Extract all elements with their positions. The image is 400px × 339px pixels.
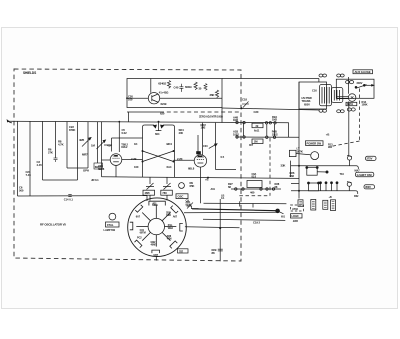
shield enclosure dashed box [14,69,241,261]
pilot label box [106,222,120,227]
dual diode arrows [145,121,173,136]
load label box [291,214,303,218]
wire ladder v6 [77,122,79,181]
transformer secondary winding [332,88,343,103]
wire band line d [203,219,285,220]
wire v 290 [289,161,291,177]
aux gauge label box [353,70,373,74]
svg-text:100: 100 [128,98,133,102]
wire tube left [102,159,111,161]
svg-text:4M5: 4M5 [79,138,85,142]
wire stub above tube [111,138,113,152]
svg-text:MR7: MR7 [82,153,88,157]
node n9 [260,188,262,190]
wire y180 [43,179,78,181]
svg-text:6249: 6249 [161,102,167,106]
choke loop 2 [309,183,319,191]
vertical tag 3 [323,200,328,209]
svg-text:6x11: 6x11 [254,129,260,133]
xtal holder box [247,181,262,188]
vertical tag 2 [311,200,316,211]
svg-text:41+: 41+ [107,144,112,148]
svg-text:2.2K: 2.2K [131,157,137,161]
svg-text:780: 780 [162,191,167,195]
svg-text:604: 604 [155,132,160,136]
capacitor C14 plates [68,195,71,197]
terminal pair e [346,81,354,84]
wire v 220 [219,199,221,261]
wire box bottom extension [222,108,320,110]
svg-text:PC2: PC2 [137,237,142,240]
svg-text:1M2: 1M2 [272,118,278,122]
svg-text:1M2: 1M2 [201,125,206,129]
tube V2A [110,149,122,177]
svg-text:0.5: 0.5 [221,155,225,159]
wire band line a [204,202,287,204]
svg-text:T10: T10 [340,172,345,176]
resistor R35 [204,84,207,91]
svg-text:400: 400 [179,131,184,135]
wire ladder v2 [29,122,31,197]
trimmer C9 step [187,206,199,209]
cathode line L1 [102,177,300,179]
ne51 label box [346,102,357,105]
wire v 266 [266,124,268,137]
wire transformer top stub [318,79,320,83]
node j1 [142,150,144,152]
wire v 274 [274,124,276,137]
node loop1a [306,167,308,169]
transformer primary winding [320,85,332,106]
trimmer C18 [242,102,249,108]
svg-text:818.2: 818.2 [121,145,128,149]
node n8 [242,188,244,190]
svg-text:4.7K: 4.7K [58,143,64,147]
svg-text:SHIELDS: SHIELDS [23,71,36,75]
node b275 [298,165,300,167]
node n11 [272,188,274,190]
node tap [219,227,221,229]
wire 275v line [291,165,357,167]
svg-text:36K: 36K [210,93,215,97]
svg-text:102S: 102S [233,132,239,136]
wire top bus to power transformer [222,78,319,80]
svg-text:JW2: JW2 [293,219,299,223]
wire stub 239 [239,201,241,206]
svg-text:230V: 230V [357,81,363,85]
svg-text:47M: 47M [167,238,172,241]
hook 450 [356,191,358,194]
450v label box [364,185,375,189]
coil L4B [94,163,103,169]
svg-text:A61: A61 [211,188,216,191]
resistor R33 [194,82,197,90]
trimmer CT2 label [161,190,173,195]
terminal pair b [337,74,344,77]
svg-text:450V: 450V [365,185,371,189]
svg-text:+B: +B [329,196,332,199]
B+ pin 1 [347,155,352,165]
g-shift label box [355,172,373,176]
pilot lamp circle [109,213,116,220]
svg-text:NE51: NE51 [347,102,354,106]
svg-text:460: 460 [250,191,255,195]
node n6 [266,136,268,138]
svg-text:C40: C40 [174,85,179,89]
node n7 [235,188,237,190]
wire ladder v4 [55,122,57,159]
svg-text:C19 2: C19 2 [253,221,261,225]
svg-text:C3B: C3B [166,214,171,217]
wire switch bottom stub [155,256,157,260]
switch S1 [355,84,374,88]
svg-text:100K: 100K [362,103,368,107]
wire plate box v [215,123,217,170]
hook 275 [357,166,359,169]
svg-text:65K: 65K [190,184,195,188]
wire coupler left [122,159,143,161]
node n6b [273,136,275,138]
svg-text:2M: 2M [254,140,257,144]
wire collector chord [127,97,148,99]
svg-text:41+45Ω: 41+45Ω [159,90,169,94]
svg-text:107K: 107K [297,150,303,154]
node j3 [173,150,175,152]
wire plate box h [216,169,236,171]
terminal pair c [319,109,327,112]
wire y168 [67,167,88,169]
svg-text:33K: 33K [281,164,286,168]
node n3b [269,122,271,124]
coil blob above V2B [196,151,201,154]
svg-text:AT18: AT18 [292,207,298,211]
wire band line c [184,211,277,214]
svg-text:6BL8: 6BL8 [98,167,105,171]
neon lamp NE51 [348,94,356,102]
svg-text:36T: 36T [249,144,254,147]
wire loop1 tap [317,171,327,173]
node n10 [266,188,268,190]
pin stub 2 [325,182,327,191]
svg-text:LOAD: LOAD [292,214,299,218]
275v label box [366,156,377,160]
node j2 [142,161,144,163]
oscillator dashed sub box [269,138,271,196]
svg-text:7-45: 7-45 [26,173,32,177]
svg-text:A67: A67 [173,216,178,219]
svg-text:100: 100 [134,165,139,169]
pin stub 3 [331,182,333,191]
meter amplifier box [127,79,222,108]
wire v 243 [243,123,245,136]
wire v 253 [252,204,254,208]
svg-text:C9: C9 [186,199,190,203]
main grid bus wire [8,121,289,137]
svg-text:R62: R62 [354,195,359,198]
svg-text:900: 900 [328,145,333,149]
jack J1 label [176,194,188,199]
rotary band switch outer [128,198,187,257]
svg-text:600Ω: 600Ω [185,85,192,89]
dashed link vertical [359,89,361,142]
jack J1 [179,183,185,189]
capacitor C4 plates [54,158,58,162]
B+ pin 2 [347,182,352,191]
label 787 box [178,249,189,253]
svg-text:JR 0.1: JR 0.1 [91,178,99,182]
node loop2b [318,182,320,184]
power transformer T1 box [299,82,327,109]
wire crossover 2 [143,151,174,162]
wire lower box line [127,111,160,113]
svg-text:G-SHIFT OSC: G-SHIFT OSC [357,173,373,177]
wire ladder v1 [17,122,19,197]
svg-text:6340Ω: 6340Ω [158,82,167,86]
wire box drop [128,112,130,122]
node loop2a [308,182,310,184]
terminal pair a [319,74,327,77]
switch spokes and contacts [130,201,183,253]
wire switch top stub a [149,195,151,200]
svg-text:81.8: 81.8 [252,175,257,178]
svg-text:W9d: W9d [168,227,174,230]
node loop1b [316,167,318,169]
node n1 [236,121,238,123]
svg-text:OPH: OPH [83,169,89,173]
svg-text:C18: C18 [242,98,247,102]
wire 450v line [291,190,356,192]
node n2 [243,121,245,123]
vertical tag 4 [331,200,336,211]
node feed [276,209,280,213]
svg-text:1K: 1K [134,142,137,146]
lamp leads [336,96,348,98]
antenna terminal [8,121,12,123]
wire ladder v8 [97,122,99,164]
wire y183 stub [291,183,299,185]
variable resistor VR1 arrow [82,138,91,147]
wire fuse link [296,154,310,155]
resistor R31 6340 [167,81,170,89]
terminal pair f [347,108,355,111]
svg-text:275V: 275V [367,157,373,161]
terminal pair d [337,110,344,113]
capacitor C40 [179,84,183,92]
pin stub 4 [336,182,338,191]
node bus junction [118,121,120,123]
svg-text:ZERO ADJ MTR 100Ω: ZERO ADJ MTR 100Ω [199,115,223,118]
trimmer CT1 label [143,190,155,195]
node loop1 [326,171,328,173]
capacitor C20 input [126,97,128,99]
wire grid stub [104,144,112,146]
node n3c [274,122,276,124]
wire feed tail [278,211,284,214]
choke loop 1 [307,167,317,175]
node b450 [298,190,300,192]
svg-text:6BL8: 6BL8 [188,167,195,171]
svg-text:0.02: 0.02 [122,131,128,135]
wire cross vertical a [143,125,145,177]
svg-text:60TM: 60TM [140,232,146,235]
capacitor C29 plates [218,249,223,251]
node n5 [243,136,245,138]
svg-text:500: 500 [19,189,24,193]
trimmer CT1 [146,177,154,190]
main B+ vertical [298,82,300,199]
svg-text:OSC: OSC [178,195,184,199]
node L1 j [207,177,209,179]
bias node row wire [231,188,281,190]
svg-text:C16: C16 [312,89,317,93]
variable resistor VR2 arrow [97,140,106,149]
wire ladder v5 [66,122,68,169]
svg-text:BD4: BD4 [167,142,173,146]
normal sw label box [306,141,324,146]
ground line L2 [18,196,148,201]
svg-text:4-45: 4-45 [37,163,43,167]
svg-text:RF OSCILLATOR V5: RF OSCILLATOR V5 [40,222,66,226]
wire coupler right [174,159,195,161]
wire cross vertical b [172,125,174,177]
svg-text:POWER SW: POWER SW [307,142,322,146]
wire lower box line dashed part [160,111,241,113]
wire heater vertical [348,77,350,94]
svg-text:+B: +B [326,133,330,137]
svg-text:4M5: 4M5 [145,191,151,195]
svg-text:C14: C14 [64,197,69,201]
wire crossover 1 [143,151,174,162]
fuse holder circle [311,152,319,160]
transistor Q1 [148,79,159,104]
svg-text:870K: 870K [69,128,75,132]
wire ladder v9 [101,122,103,177]
svg-text:620: 620 [160,112,165,116]
dashed link diagonal [331,141,360,147]
svg-text:C30: C30 [254,110,259,114]
svg-text:AUX GAUGE: AUX GAUGE [355,70,371,74]
power switch box [336,79,374,98]
pin stub 1 [320,182,322,191]
wire band line e [185,227,240,228]
wire band line b [192,209,277,211]
fuse body box [289,150,296,156]
svg-text:6A7: 6A7 [136,215,141,218]
switch wafer labels [136,203,178,258]
node trimmer junction [241,107,243,109]
wire ladder v10 [118,122,120,149]
rotary band switch hub [148,218,164,234]
svg-text:6A4: 6A4 [167,165,172,169]
svg-text:XTAL: XTAL [107,223,114,227]
node j4 [173,161,175,163]
svg-text:655V: 655V [304,102,310,106]
svg-text:C23: C23 [203,144,208,148]
svg-text:2.2K: 2.2K [177,157,183,161]
trimmer CT2 [163,177,171,190]
wire ladder v3 [42,122,44,181]
svg-text:787: 787 [179,249,184,253]
trimmer C23 slash [209,144,217,149]
wire ladder v7 [87,122,89,169]
wire osc line2 [236,136,299,138]
svg-text:40M7: 40M7 [151,244,158,247]
svg-text:1M3: 1M3 [233,118,239,122]
coil box L8 [252,123,263,128]
svg-text:LAMP SW: LAMP SW [104,228,116,232]
svg-text:0.1: 0.1 [69,197,73,201]
wire switch top stub b [166,195,168,200]
coil box L9 [252,139,263,144]
wire box right edge lower [221,108,223,123]
tube V2B [194,123,206,204]
svg-text:SW1: SW1 [152,203,158,207]
svg-text:27K: 27K [48,151,53,155]
node n3 [265,122,267,124]
dashed plug box [291,205,304,211]
svg-text:+B: +B [205,178,209,182]
resistor R34 [215,90,218,98]
vertical tag 1 [298,200,303,207]
node n4 [236,136,238,138]
